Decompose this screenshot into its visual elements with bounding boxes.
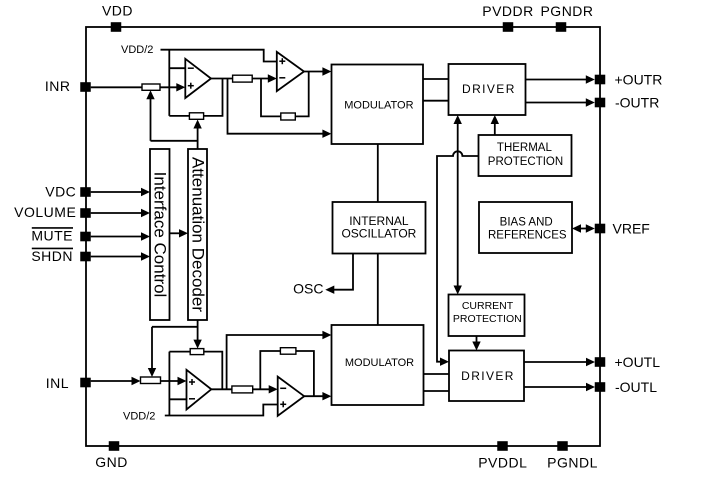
svg-text:DRIVER: DRIVER [462,82,516,96]
svg-text:PVDDL: PVDDL [478,454,527,470]
svg-text:VREF: VREF [613,220,650,236]
svg-text:VDC: VDC [45,183,76,199]
svg-text:OSC: OSC [293,281,323,297]
svg-text:DRIVER: DRIVER [461,369,515,383]
svg-text:VOLUME: VOLUME [14,204,76,220]
svg-text:REFERENCES: REFERENCES [488,230,567,242]
svg-text:BIAS AND: BIAS AND [500,217,553,229]
svg-text:-OUTL: -OUTL [615,379,657,395]
svg-text:GND: GND [95,454,128,470]
svg-text:Interface Control: Interface Control [151,172,170,298]
svg-text:INL: INL [46,375,69,391]
svg-text:MUTE: MUTE [31,228,73,244]
svg-text:OSCILLATOR: OSCILLATOR [341,227,416,241]
svg-text:PVDDR: PVDDR [482,3,534,19]
svg-text:CURRENT: CURRENT [462,300,514,312]
svg-text:+OUTL: +OUTL [615,354,661,370]
svg-text:MODULATOR: MODULATOR [345,357,414,369]
svg-text:INR: INR [45,78,71,94]
svg-text:VDD/2: VDD/2 [121,44,153,56]
svg-text:PROTECTION: PROTECTION [453,313,522,325]
svg-text:THERMAL: THERMAL [497,142,553,154]
svg-text:VDD/2: VDD/2 [123,410,155,422]
svg-text:MODULATOR: MODULATOR [344,99,413,111]
svg-text:PGNDR: PGNDR [540,3,593,19]
svg-text:PROTECTION: PROTECTION [488,156,563,168]
svg-text:SHDN: SHDN [31,248,73,264]
svg-text:+OUTR: +OUTR [615,71,663,87]
svg-text:PGNDL: PGNDL [547,455,598,471]
svg-text:Attenuation Decoder: Attenuation Decoder [189,157,208,312]
svg-text:-OUTR: -OUTR [615,94,659,110]
svg-text:VDD: VDD [102,3,133,19]
